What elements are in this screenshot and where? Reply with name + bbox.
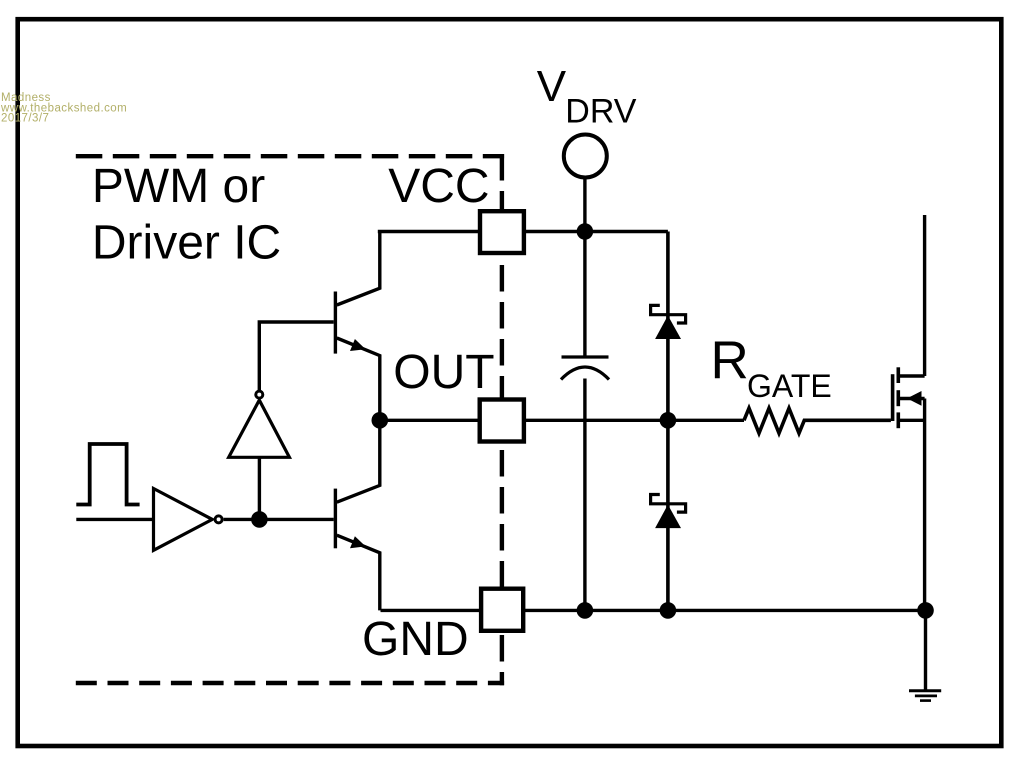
svg-text:GATE: GATE xyxy=(747,368,832,404)
watermark text xyxy=(0,92,127,125)
pad GND xyxy=(481,589,523,631)
wire inverter U2 input stem xyxy=(258,458,261,519)
wire inverter U1 output xyxy=(224,518,334,521)
svg-text:PWM or: PWM or xyxy=(92,160,265,213)
wire capacitor bottom stem xyxy=(583,379,586,611)
transistor Q2 collector xyxy=(337,420,380,502)
wire capacitor top stem xyxy=(583,232,586,357)
svg-text:OUT: OUT xyxy=(393,346,494,399)
inverter U2 triangle xyxy=(229,400,290,457)
svg-text:2017/3/7: 2017/3/7 xyxy=(1,113,49,125)
label VDRV xyxy=(537,62,637,131)
ground symbol xyxy=(909,691,941,701)
capacitor C1 curved plate xyxy=(561,367,609,380)
MOSFET Q3 body line xyxy=(898,397,924,400)
diode D1 arrow xyxy=(655,316,681,340)
wire inverter U2 output to Q1 base xyxy=(259,322,333,391)
input pulse symbol xyxy=(76,444,139,505)
MOSFET Q3 drain tap xyxy=(898,374,924,377)
wire GND stem xyxy=(924,610,927,690)
transistor Q2 base bar xyxy=(334,489,337,549)
capacitor C1 top plate xyxy=(562,355,609,358)
pad OUT xyxy=(480,400,524,442)
svg-text:DRV: DRV xyxy=(565,93,636,131)
transistor Q1 collector xyxy=(337,232,380,306)
label RGATE xyxy=(711,331,832,404)
wire MOSFET drain xyxy=(923,215,926,376)
transistor Q2 emitter xyxy=(337,535,380,610)
transistor Q1 emitter arrow xyxy=(350,339,366,351)
diode D1 schottky cathode bar xyxy=(651,305,686,323)
wire GND rail xyxy=(381,609,926,612)
node GND-diode junction xyxy=(660,602,677,619)
wire VCC rail xyxy=(378,230,668,233)
transistor Q1 emitter xyxy=(337,338,380,420)
svg-text:R: R xyxy=(711,331,749,390)
resistor RGATE zigzag xyxy=(744,408,891,433)
node GND-source junction xyxy=(917,602,934,619)
pad VCC xyxy=(480,211,524,253)
MOSFET Q3 body arrow xyxy=(907,391,922,406)
wire input xyxy=(76,518,153,521)
MOSFET Q3 source tap xyxy=(898,419,924,422)
wire VDRV stem xyxy=(583,178,586,232)
svg-text:V: V xyxy=(537,62,567,111)
svg-text:VCC: VCC xyxy=(388,160,489,213)
inverter U1 bubble xyxy=(215,516,222,523)
svg-text:Driver IC: Driver IC xyxy=(92,217,281,270)
node inverter output junction xyxy=(251,511,268,528)
inverter U1 triangle xyxy=(154,489,213,551)
svg-text:GND: GND xyxy=(362,613,469,666)
MOSFET Q3 gate bar xyxy=(891,374,895,421)
label PWM or Driver IC xyxy=(92,160,281,270)
node VDRV junction xyxy=(577,223,594,240)
IC boundary dashed box xyxy=(76,154,504,685)
node diode-OUT junction xyxy=(660,412,677,429)
transistor Q1 base bar xyxy=(334,292,337,354)
inverter U2 bubble xyxy=(256,391,263,398)
node GND-cap junction xyxy=(577,602,594,619)
node OUT junction xyxy=(372,412,389,429)
wire MOSFET source xyxy=(923,399,926,611)
MOSFET Q3 channel segments xyxy=(896,367,900,428)
diode D2 arrow xyxy=(655,505,681,528)
wire OUT rail xyxy=(379,419,745,422)
diode D2 schottky cathode bar xyxy=(651,495,686,513)
transistor Q2 emitter arrow xyxy=(350,536,366,548)
wire diode branch xyxy=(666,232,670,611)
terminal VDRV circle xyxy=(564,135,607,178)
